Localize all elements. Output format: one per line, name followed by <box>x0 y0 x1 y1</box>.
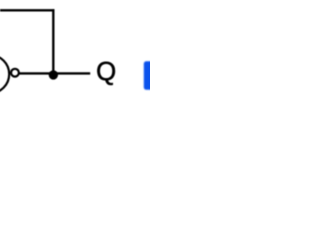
wire: top feedback horizontal <box>0 9 54 11</box>
inverter bubble on U1 output <box>11 69 19 77</box>
wire: output horizontal to Q <box>20 72 91 74</box>
junction dot <box>49 70 58 79</box>
blue UI element (cropped at right edge) <box>144 61 154 90</box>
wire: feedback vertical <box>52 9 54 74</box>
gate U1 output arc (NAND tip, clipped at left edge) <box>0 55 9 93</box>
svg-text:Q: Q <box>96 58 116 86</box>
